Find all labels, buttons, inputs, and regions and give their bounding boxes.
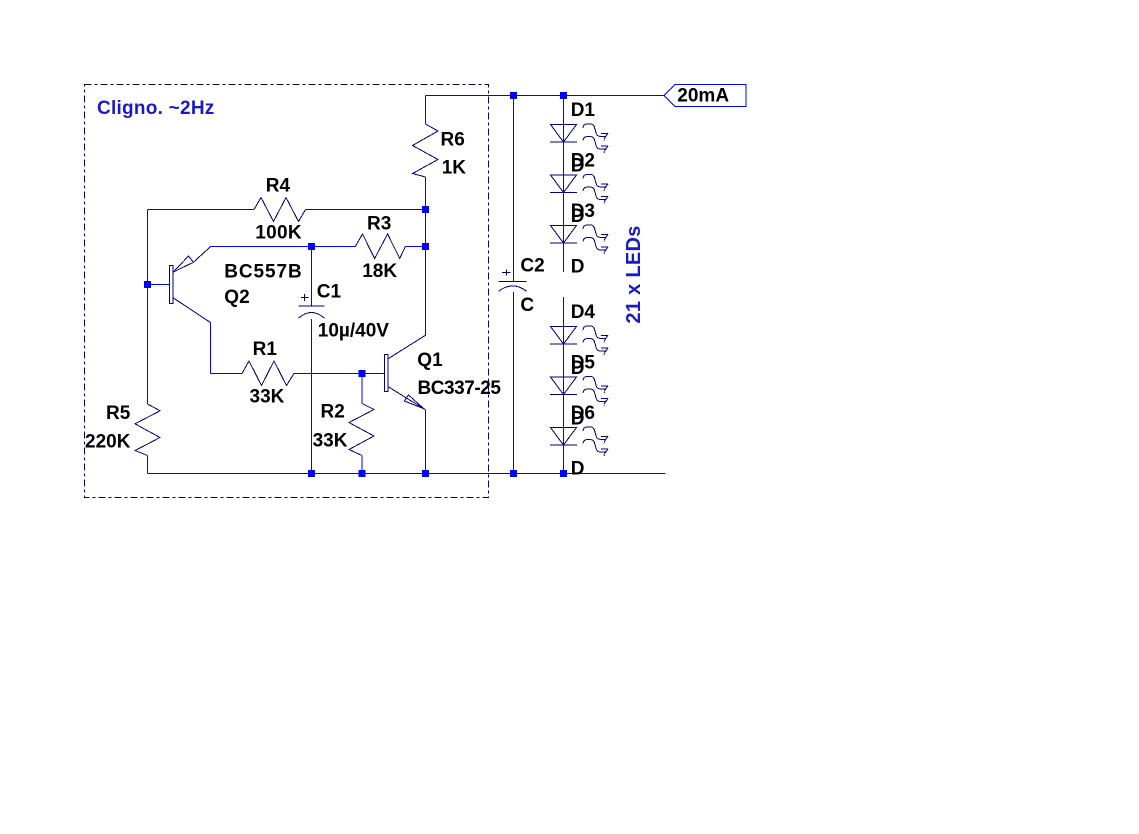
node junction bottom rail C2 [510, 470, 517, 477]
svg-text:D6: D6 [571, 403, 595, 424]
wire R4 left segment [148, 209, 255, 211]
svg-text:Cligno. ~2Hz: Cligno. ~2Hz [97, 98, 215, 119]
LED D3 [550, 225, 608, 254]
node junction bottom rail R2 [359, 470, 366, 477]
resistor R2 [349, 404, 374, 456]
capacitor C2 [499, 269, 527, 291]
node junction top rail at C2 [510, 92, 517, 99]
wire Q2 collector vertical [210, 323, 212, 374]
wire C1 bottom lead [311, 319, 313, 474]
wire R1 left segment [211, 373, 243, 375]
svg-text:R1: R1 [253, 339, 278, 360]
svg-text:D: D [571, 257, 585, 278]
wire R3 right segment [405, 246, 425, 248]
svg-text:R6: R6 [441, 130, 465, 151]
LED D6 [550, 427, 608, 456]
transistor Q2 (PNP BC557B) [170, 247, 211, 323]
wire bottom rail y=473 [148, 473, 666, 475]
svg-text:D5: D5 [571, 353, 596, 374]
svg-text:R4: R4 [266, 175, 291, 196]
wire R4 right segment [306, 209, 426, 211]
node junction C1/R3 wire [308, 243, 315, 250]
resistor R4 [254, 198, 306, 222]
svg-text:33K: 33K [250, 386, 285, 407]
svg-text:D1: D1 [571, 100, 596, 121]
svg-text:C2: C2 [520, 256, 544, 277]
node junction bottom rail Q1 [422, 470, 429, 477]
wire LED chain lower [563, 297, 565, 474]
svg-text:BC557B: BC557B [224, 261, 302, 282]
wire R5 bottom lead [147, 456, 149, 474]
resistor R5 [135, 404, 160, 456]
wire LED chain upper [563, 96, 565, 273]
capacitor C1 [298, 294, 324, 318]
wire R6 bottom to Q1 collector [425, 177, 427, 336]
wire left vertical rail [147, 210, 149, 405]
node junction bottom rail C1 [308, 470, 315, 477]
svg-text:10µ/40V: 10µ/40V [318, 321, 389, 342]
svg-text:D4: D4 [571, 302, 596, 323]
resistor R3 [355, 234, 405, 259]
svg-text:R5: R5 [106, 403, 131, 424]
svg-text:BC337-25: BC337-25 [418, 378, 502, 399]
svg-text:18K: 18K [362, 261, 397, 282]
node junction Q2 base rail [144, 281, 151, 288]
svg-text:C: C [520, 295, 534, 316]
svg-text:R2: R2 [321, 402, 345, 423]
svg-text:21 x LEDs: 21 x LEDs [623, 225, 645, 323]
node junction Q1 base / R2 [359, 370, 366, 377]
wire R2 top lead [361, 374, 363, 404]
LED D4 [550, 326, 608, 355]
wire C1 top lead [311, 247, 313, 307]
wire C2 bottom lead [513, 292, 515, 474]
node junction bottom rail LED chain [560, 470, 567, 477]
wire R1 right segment to Q1 base [294, 373, 384, 375]
svg-text:D3: D3 [571, 201, 595, 222]
wire Q2 emitter horizontal to R3 [211, 246, 356, 248]
svg-text:D2: D2 [571, 151, 595, 172]
wire R6 top stub [425, 96, 427, 125]
svg-text:D: D [571, 459, 585, 480]
LED D5 [550, 377, 608, 406]
resistor R6 [413, 124, 439, 177]
node junction R6/R4 [422, 206, 429, 213]
svg-text:20mA: 20mA [677, 85, 729, 106]
wire Q1 emitter vertical [425, 410, 427, 474]
wire Q2 base [148, 284, 170, 286]
20mA flag tag [664, 85, 746, 107]
svg-text:Q1: Q1 [417, 350, 443, 371]
LED D2 [550, 175, 608, 204]
svg-text:33K: 33K [313, 431, 348, 452]
wire top rail y=95 [426, 95, 665, 97]
wires (blue) [148, 96, 666, 474]
transistor Q1 (NPN BC337-25) [385, 335, 426, 410]
resistor R1 [242, 361, 294, 386]
node junction top rail at LED chain [560, 92, 567, 99]
svg-text:1K: 1K [442, 158, 467, 179]
svg-text:Q2: Q2 [224, 287, 249, 308]
wire C2 top lead [513, 96, 515, 282]
svg-text:220K: 220K [85, 432, 131, 453]
svg-text:R3: R3 [367, 214, 391, 235]
node junction R3 right [422, 243, 429, 250]
dash-dot enclosure box [85, 85, 489, 498]
LED D1 [550, 124, 608, 153]
wire R2 bottom lead [361, 456, 363, 474]
svg-text:C1: C1 [317, 281, 342, 302]
svg-text:100K: 100K [255, 222, 302, 243]
